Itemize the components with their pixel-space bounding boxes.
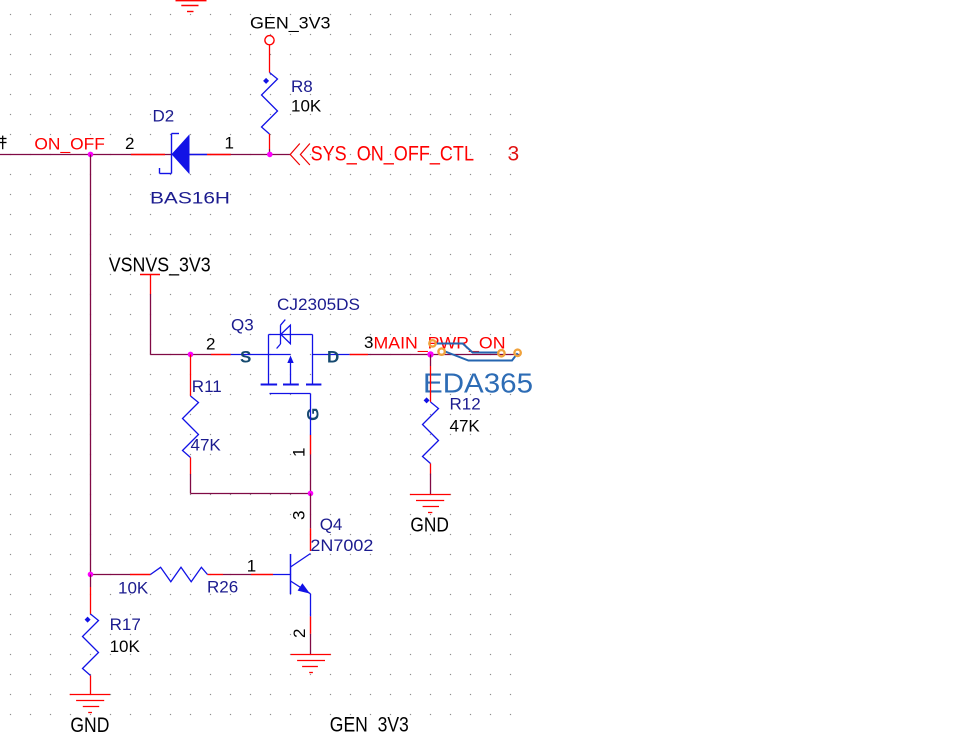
svg-text:1: 1	[247, 557, 256, 576]
svg-text:D: D	[327, 348, 339, 367]
resistor R8	[262, 73, 278, 135]
resistor R17	[90, 575, 92, 588]
wire	[269, 45, 271, 73]
wire ON_OFF horizontal	[0, 154, 290, 156]
off-page connector stub (clipped, left edge)	[0, 136, 7, 150]
resistor R12	[430, 355, 432, 367]
svg-text:BAS16H: BAS16H	[150, 189, 230, 208]
body diode of Q3	[277, 320, 291, 349]
svg-text:R8: R8	[291, 77, 313, 96]
wire vertical from ON_OFF	[90, 155, 92, 575]
resistor R11	[190, 355, 192, 397]
svg-text:2: 2	[125, 134, 134, 153]
svg-text:GND: GND	[410, 514, 449, 536]
svg-text:D2: D2	[153, 106, 175, 125]
svg-text:47K: 47K	[450, 417, 481, 436]
svg-text:2N7002: 2N7002	[310, 536, 373, 555]
diode D2	[131, 154, 165, 156]
wire collector	[310, 494, 312, 529]
svg-text:GEN_3V3: GEN_3V3	[330, 714, 409, 733]
svg-text:R26: R26	[207, 577, 238, 596]
junction	[88, 152, 94, 158]
svg-text:10K: 10K	[291, 97, 322, 116]
svg-text:VSNVS_3V3: VSNVS_3V3	[109, 254, 211, 276]
resistor R26	[91, 574, 131, 576]
svg-text:3: 3	[364, 333, 373, 352]
svg-text:3: 3	[508, 143, 520, 166]
junction	[88, 572, 94, 578]
junction at R8/D2	[267, 152, 273, 158]
junction	[188, 352, 194, 358]
svg-text:R12: R12	[450, 394, 481, 413]
svg-text:CJ2305DS: CJ2305DS	[277, 295, 360, 314]
svg-text:GEN_3V3: GEN_3V3	[250, 14, 331, 33]
svg-text:Q4: Q4	[320, 515, 343, 534]
ground GND (under R17)	[70, 695, 110, 713]
svg-text:3: 3	[290, 511, 309, 520]
ground (under Q4)	[291, 655, 331, 673]
wire emitter	[310, 616, 312, 633]
svg-text:1: 1	[225, 134, 234, 153]
junction	[427, 351, 433, 357]
ground (clipped, top)	[176, 1, 207, 12]
gate wire	[310, 394, 312, 436]
junction	[308, 491, 314, 497]
svg-text:R11: R11	[192, 377, 222, 396]
svg-text:SYS_ON_OFF_CTL: SYS_ON_OFF_CTL	[311, 143, 474, 166]
wire	[269, 134, 271, 149]
wire D to MAIN_PWR_ON	[350, 354, 368, 356]
svg-text:R17: R17	[110, 615, 141, 634]
svg-text:1: 1	[290, 448, 309, 457]
svg-text:47K: 47K	[191, 435, 222, 454]
svg-text:2: 2	[290, 629, 309, 638]
off-page connector SYS_ON_OFF_CTL	[290, 144, 310, 166]
EDA365 watermark logo	[437, 344, 518, 361]
svg-text:G: G	[304, 408, 323, 421]
svg-text:10K: 10K	[110, 637, 141, 656]
svg-text:GND: GND	[70, 714, 109, 733]
svg-text:10K: 10K	[118, 579, 149, 598]
svg-text:2: 2	[206, 334, 215, 353]
wire	[190, 474, 192, 494]
svg-text:ON_OFF: ON_OFF	[34, 134, 105, 153]
wire	[150, 294, 152, 355]
svg-text:S: S	[240, 348, 251, 367]
svg-text:Q3: Q3	[231, 316, 254, 335]
ground GND (under R12)	[410, 495, 451, 513]
